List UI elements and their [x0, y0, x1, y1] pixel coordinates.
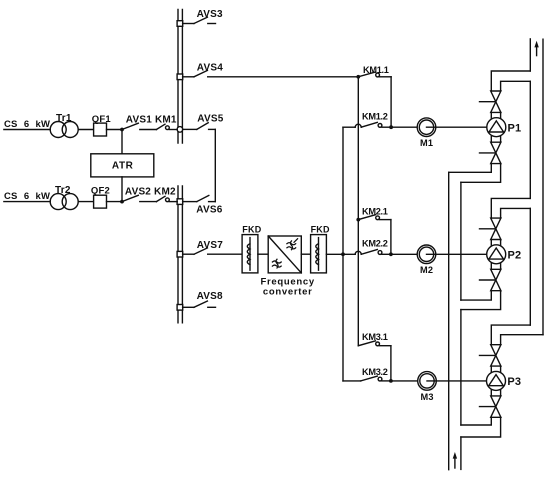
contactor KM3.2 contact circle [378, 377, 382, 381]
switch AVS8 blade [194, 301, 207, 307]
wire to motor M3 [391, 380, 418, 382]
breaker QF2 [94, 195, 107, 208]
label P1 [508, 122, 522, 134]
wire AVS4 to KM1.1 node [208, 76, 359, 78]
contactor KM1.1 blade [358, 72, 375, 77]
node KM2.1 junction dot [356, 218, 360, 222]
wire KM1 to bus [169, 129, 177, 131]
filter choke FKD2 box [311, 235, 327, 273]
label Tr2 [55, 185, 71, 196]
wire KM1.1 output vertical [390, 77, 392, 127]
label CS 6 kW row2 [4, 191, 50, 202]
node AVS7 bus junction [177, 251, 183, 257]
suction flow arrow [453, 452, 457, 468]
wire KM2 to bus [169, 201, 177, 203]
wire KM2.2 to node B2 [382, 253, 391, 255]
switch AVS4 blade [194, 70, 207, 76]
contactor KM1 contact circle [166, 126, 170, 130]
label Frequency converter line2 [263, 286, 313, 297]
wire AVS2 to KM2 [140, 201, 157, 203]
wire AVS7 to FKD1 [208, 253, 242, 255]
pipe discharge main left wall [529, 39, 531, 325]
svg-text:AVS3: AVS3 [197, 9, 223, 20]
wire KM2.1 output vertical [390, 220, 392, 255]
contactor KM2 blade [156, 196, 165, 201]
wire M2 shaft to pump P2 [427, 253, 487, 255]
svg-text:QF1: QF1 [92, 114, 112, 125]
contactor KM1.2 blade [361, 122, 377, 127]
node AVS8 bus junction [177, 305, 183, 311]
wire KM2.1 to corner [380, 219, 391, 221]
svg-text:AVS4: AVS4 [197, 63, 223, 74]
frequency converter input AC glyph [272, 259, 281, 268]
switch AVS6 blade [197, 195, 209, 201]
svg-text:AVS6: AVS6 [196, 205, 222, 216]
pump P2 [487, 245, 506, 264]
svg-text:KM1.2: KM1.2 [362, 111, 388, 121]
valve V2a (above P2) [480, 218, 501, 239]
svg-text:Tr1: Tr1 [56, 113, 72, 124]
svg-text:AVS5: AVS5 [197, 114, 223, 125]
label AVS6 [196, 205, 222, 216]
wire FC bus vertical [342, 127, 344, 381]
wire to motor M1 [391, 126, 417, 128]
svg-text:KM2.1: KM2.1 [362, 207, 388, 217]
wire AVS5-AVS6 tie vertical [214, 129, 216, 201]
label AVS8 [197, 291, 223, 302]
contactor KM2.1 blade [358, 215, 375, 220]
wire mains vertical [357, 77, 359, 346]
contactor KM3.2 blade [361, 376, 378, 381]
node FC junction dot [341, 252, 345, 256]
valve V3b (below P3) [480, 396, 501, 417]
wire KM3.1 output vertical [390, 346, 392, 381]
switch AVS6 stub wire [183, 201, 197, 203]
svg-text:M2: M2 [420, 265, 433, 275]
wire QF2 to node A2 [107, 201, 123, 203]
svg-text:KM3.2: KM3.2 [362, 367, 388, 377]
switch AVS2 blade [122, 195, 138, 201]
label AVS1 KM1 [126, 114, 177, 125]
node row2 bus junction [177, 199, 183, 205]
svg-text:M1: M1 [420, 138, 433, 148]
node A2 junction dot [120, 200, 124, 204]
pipe P2 discharge elbow walls [491, 198, 530, 218]
svg-text:M3: M3 [421, 392, 434, 402]
transformer Tr2 [50, 194, 78, 210]
switch AVS1 blade [122, 123, 138, 129]
node KM1.1 junction dot [356, 75, 360, 79]
svg-text:AVS1 KM1: AVS1 KM1 [126, 114, 177, 125]
motor M1 [417, 118, 436, 137]
wire FC to KM3.2 horizontal [343, 380, 361, 382]
node B2 junction dot [389, 252, 393, 256]
label AVS3 [197, 9, 223, 20]
label KM1.1 [363, 65, 389, 75]
label P3 [507, 376, 521, 388]
label KM3.2 [362, 367, 388, 377]
wire hop over mains at KM1.2 [355, 124, 361, 127]
wire converter to FKD2 [301, 253, 310, 255]
pipe suction main right wall [460, 182, 462, 469]
pipe P1 pump nozzles [491, 112, 500, 142]
label FKD2 [311, 224, 330, 234]
label KM2.2 [362, 239, 388, 249]
node row1 bus junction [177, 127, 183, 133]
pipe P1 discharge elbow walls [491, 71, 530, 91]
node A1 junction dot [120, 128, 124, 132]
switch AVS8 stub wire [183, 306, 194, 308]
contactor KM1.1 contact circle [376, 73, 380, 77]
contactor KM3.1 contact circle [376, 342, 380, 346]
svg-text:ATR: ATR [112, 160, 134, 171]
wire node A1 down to ATR [121, 130, 123, 154]
svg-text:KM1.1: KM1.1 [363, 65, 389, 75]
valve V1a (above P1) [480, 91, 501, 112]
svg-text:FKD: FKD [311, 224, 330, 234]
wire KM3.2 to node B3 [382, 380, 391, 382]
label KM1.2 [362, 111, 388, 121]
transformer ATR box [91, 154, 154, 177]
wire CS feed row2 [4, 201, 50, 203]
pipe P2 pump nozzles [491, 240, 500, 270]
svg-text:KM3.1: KM3.1 [362, 332, 388, 342]
valve V3a (above P3) [480, 345, 501, 366]
wire KM3.1 to corner [380, 345, 391, 347]
wire CS feed row1 [4, 129, 50, 131]
node B1 junction dot [389, 125, 393, 129]
wire Tr2 to QF2 [78, 201, 93, 203]
switch AVS7 stub wire [183, 253, 194, 255]
label CS 6 kW row1 [4, 119, 50, 130]
switch AVS5 blade [197, 123, 208, 130]
wire AVS5 continuation [209, 128, 216, 130]
svg-text:AVS7: AVS7 [197, 240, 223, 251]
contactor KM3.1 blade [358, 341, 375, 346]
contactor KM2.1 contact circle [376, 216, 380, 220]
svg-text:P3: P3 [507, 376, 521, 388]
discharge flow arrow [534, 41, 538, 56]
svg-text:KM2.2: KM2.2 [362, 239, 388, 249]
label KM2.1 [362, 207, 388, 217]
label M2 [420, 265, 433, 275]
wire AVS1 to KM1 [140, 129, 157, 131]
wire M3 shaft to pump P3 [427, 380, 487, 382]
pipe discharge main right wall [542, 39, 544, 335]
label P2 [508, 249, 522, 261]
label Tr1 [56, 113, 72, 124]
transformer Tr1 [50, 122, 78, 138]
wire FKD1 to converter [258, 253, 268, 255]
valve V2b (below P2) [480, 269, 501, 290]
pipe P3 discharge elbow walls [491, 325, 543, 345]
svg-text:converter: converter [263, 286, 313, 297]
wire to motor M2 [391, 253, 417, 255]
node B3 junction dot [389, 379, 393, 383]
contactor KM1.2 contact circle [378, 124, 382, 128]
frequency converter output AC glyph [287, 239, 298, 250]
wire FC to KM1.2 horizontal [343, 126, 355, 128]
svg-text:P2: P2 [508, 249, 522, 261]
breaker QF1 [94, 123, 107, 136]
bus section 2 (bottom busbar, double line) [178, 186, 182, 323]
label AVS2 KM2 [125, 186, 176, 197]
frequency converter U1 box [268, 236, 301, 273]
label ATR [112, 160, 134, 171]
wire hop over mains at KM2.2 [355, 251, 361, 254]
pipe P3 suction tee walls [461, 417, 501, 437]
motor M2 [417, 245, 436, 264]
label Frequency converter line1 [261, 276, 315, 287]
label FKD1 [242, 224, 261, 234]
switch AVS3 stub wire [183, 23, 194, 25]
svg-text:CS 6 kW: CS 6 kW [4, 119, 50, 130]
wire M1 shaft to pump P1 [427, 126, 487, 128]
contactor KM2.2 blade [361, 250, 377, 255]
svg-text:AVS8: AVS8 [197, 291, 223, 302]
pipe P3 pump nozzles [491, 366, 500, 396]
switch AVS3 open terminal dash [208, 23, 216, 25]
label M3 [421, 392, 434, 402]
wire KM1.1 to corner [380, 76, 392, 78]
label AVS7 [197, 240, 223, 251]
svg-text:FKD: FKD [242, 224, 261, 234]
contactor KM2.2 contact circle [378, 251, 382, 255]
switch AVS8 open terminal dash [208, 306, 216, 308]
switch AVS5 stub wire [183, 128, 197, 130]
switch AVS7 blade [194, 248, 207, 254]
svg-text:QF2: QF2 [91, 186, 110, 197]
label M1 [420, 138, 433, 148]
label AVS5 [197, 114, 223, 125]
pump P1 [487, 118, 506, 137]
switch AVS4 stub wire [183, 76, 194, 78]
switch AVS3 blade [194, 17, 207, 23]
svg-text:CS 6 kW: CS 6 kW [4, 191, 50, 202]
node AVS4 bus junction [177, 74, 183, 80]
wire QF1 to node A1 [107, 129, 123, 131]
label KM3.1 [362, 332, 388, 342]
wire ATR down to node A2 [121, 177, 123, 202]
valve V1b (below P1) [480, 142, 501, 163]
wire KM1.2 to node B1 [382, 126, 391, 128]
contactor KM2 contact circle [166, 198, 170, 202]
pipe P2 suction tee walls [461, 291, 501, 310]
bus section 1 (top busbar, double line) [178, 10, 182, 144]
pipe P1 suction elbow walls [449, 164, 501, 183]
label QF2 [91, 186, 110, 197]
wire FKD2 to node FC [326, 253, 355, 255]
pump P3 [487, 371, 506, 390]
motor M3 [418, 372, 437, 391]
pipe suction main left wall [448, 172, 450, 469]
filter choke FKD1 box [242, 235, 258, 273]
wire AVS6 continuation [209, 201, 216, 203]
svg-text:P1: P1 [508, 122, 522, 134]
label AVS4 [197, 63, 223, 74]
svg-text:Tr2: Tr2 [55, 185, 71, 196]
node AVS3 bus junction [177, 21, 183, 27]
svg-text:AVS2 KM2: AVS2 KM2 [125, 186, 176, 197]
label QF1 [92, 114, 112, 125]
contactor KM1 blade [156, 124, 165, 129]
wire Tr1 to QF1 [78, 129, 93, 131]
